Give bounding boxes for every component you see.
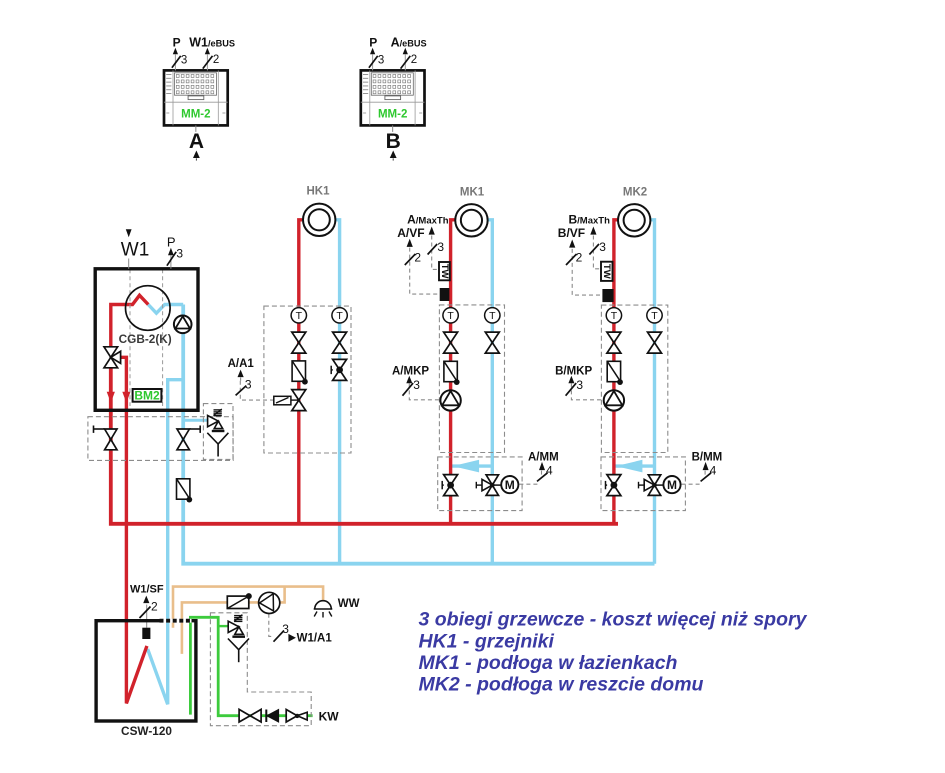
valve MK2 return	[648, 332, 662, 353]
legend line 4	[419, 674, 704, 696]
svg-text:A/VF: A/VF	[397, 226, 424, 240]
wire WW hot water orange	[173, 587, 323, 628]
svg-text:3: 3	[245, 378, 252, 392]
label KW	[319, 710, 340, 724]
svg-text:MM-2: MM-2	[181, 109, 210, 121]
svg-text:M: M	[505, 478, 515, 492]
wire MK1 red supply	[451, 220, 456, 524]
svg-text:TW: TW	[601, 264, 612, 279]
dashed line A/MM to mixer motor	[519, 471, 541, 485]
svg-text:T: T	[489, 310, 496, 322]
label 3 at A/A1	[236, 378, 252, 396]
svg-text:A: A	[189, 130, 204, 153]
boiler pump	[174, 316, 192, 334]
svg-text:KW: KW	[319, 710, 340, 724]
svg-text:CGB-2(K): CGB-2(K)	[119, 332, 172, 346]
dashed box boiler safety group	[203, 404, 233, 460]
label 3 at B/MaxTh	[589, 240, 606, 255]
balancing valve MK2	[606, 475, 621, 496]
svg-text:B/MM: B/MM	[692, 452, 723, 464]
dashed line W1/A1 from DHW pump	[269, 614, 273, 637]
legend line 2	[419, 631, 555, 653]
tap symbol WW	[314, 601, 333, 618]
tank top border pipe crossings	[160, 619, 192, 623]
sensor VF MK2	[602, 289, 613, 302]
wire KW cold water green	[190, 617, 312, 715]
wire MK1 mixing bypass	[451, 460, 493, 473]
label MK2	[623, 186, 647, 198]
svg-text:W1/A1: W1/A1	[297, 633, 333, 645]
motor M MK1	[501, 476, 518, 493]
thermometer T MK1 return	[485, 308, 500, 323]
dashed box MK2 mixing group	[601, 457, 685, 511]
pump MK1	[440, 390, 460, 410]
thermostat TW MK2	[601, 262, 613, 281]
label 3 at B/MKP	[566, 378, 584, 396]
svg-text:2: 2	[213, 54, 219, 66]
mixer 3-way MK1	[476, 475, 500, 496]
label HK1	[306, 185, 330, 197]
svg-text:A/A1: A/A1	[228, 358, 255, 370]
svg-text:T: T	[447, 310, 454, 322]
valve 3-way boiler	[104, 347, 121, 368]
svg-text:T: T	[651, 310, 658, 322]
svg-text:3: 3	[437, 240, 444, 254]
dashed line B/MM to mixer motor	[682, 471, 706, 485]
svg-text:B/MKP: B/MKP	[555, 366, 592, 378]
sensor VF MK1	[440, 288, 450, 301]
label P at boiler	[167, 235, 176, 269]
legend line 1	[419, 609, 808, 631]
label 3 module B	[369, 54, 384, 67]
balancing valve MK1	[442, 475, 457, 496]
balancing valve HK1 return	[331, 359, 346, 380]
label A/MaxTh	[407, 213, 449, 235]
thermostat TW MK1	[439, 262, 450, 280]
svg-text:P: P	[369, 35, 377, 49]
dashed line A/MaxTh to TW	[432, 236, 439, 270]
label 3 at W1/A1	[274, 622, 290, 642]
zone valve HK1	[274, 390, 306, 411]
controller MM-2 module A	[164, 48, 228, 161]
wire HK1 blue return	[336, 220, 340, 564]
dashed box DHW group	[210, 613, 311, 726]
label 3 at A/MKP	[403, 378, 421, 396]
wire red supply main	[111, 368, 618, 524]
valve MK1 supply	[444, 332, 458, 353]
label A/VF	[397, 226, 424, 247]
pump head MK1	[455, 204, 487, 236]
label W1 at boiler	[121, 229, 150, 269]
svg-text:MK1: MK1	[460, 186, 485, 198]
wire MK2 red supply	[614, 220, 619, 524]
label 3 module A	[172, 54, 187, 67]
label B/MM	[692, 452, 723, 470]
svg-text:TW: TW	[439, 264, 450, 279]
check valve blue riser	[177, 479, 193, 503]
dashed box MK2 circuit	[601, 305, 667, 452]
valve HK1 supply	[292, 332, 306, 353]
svg-text:A/MKP: A/MKP	[392, 366, 429, 378]
dashed box MK1 circuit	[439, 305, 504, 453]
svg-text:B: B	[386, 130, 401, 153]
label A/MKP	[392, 366, 429, 384]
svg-text:W1/SF: W1/SF	[130, 584, 164, 596]
legend line 3	[419, 652, 678, 674]
svg-text:2: 2	[414, 251, 421, 265]
motor valve DHW	[227, 593, 252, 608]
svg-text:3: 3	[599, 240, 606, 254]
label 2 at B/VF	[566, 251, 583, 266]
label A/A1	[228, 358, 255, 381]
label CSW-120	[121, 724, 172, 738]
svg-text:4: 4	[546, 463, 553, 477]
motor M MK2	[663, 476, 680, 493]
wire MK1 blue return	[488, 220, 493, 564]
wire green stub to DHW safety valve	[218, 625, 228, 627]
svg-text:HK1: HK1	[306, 185, 330, 197]
check valve KW	[266, 710, 278, 723]
svg-text:3: 3	[576, 378, 583, 392]
valve shutoff red riser	[94, 426, 118, 450]
label 4 at A/MM	[537, 463, 553, 481]
wire boiler-to-tank blue line	[148, 380, 184, 705]
dashed box MK1 mixing group	[438, 457, 522, 511]
module BM2	[133, 389, 162, 403]
svg-text:3: 3	[378, 54, 384, 66]
valve KW shutoff 2	[286, 710, 307, 723]
label B/MaxTh	[569, 213, 611, 235]
svg-text:3: 3	[176, 246, 183, 260]
wire boiler blue return riser to main	[183, 305, 654, 564]
wire red boiler-to-tank supply	[121, 357, 147, 703]
svg-text:2: 2	[151, 600, 158, 614]
wire boiler blue heat-exchanger outlet	[148, 305, 183, 314]
wire WW circulation orange	[182, 587, 285, 654]
label 2 at A/VF	[405, 251, 422, 266]
dashed line A/MKP to pump	[409, 383, 439, 399]
svg-text:T: T	[336, 310, 343, 322]
tank CSW-120 housing	[96, 621, 196, 721]
svg-text:2: 2	[576, 251, 583, 265]
valve shutoff blue riser	[177, 426, 200, 450]
svg-text:W1: W1	[121, 239, 150, 260]
svg-text:WW: WW	[338, 598, 360, 610]
pump MK2	[604, 390, 624, 410]
label 3 at A/MaxTh	[428, 240, 445, 255]
valve HK1 return	[333, 332, 347, 353]
svg-text:B/MaxTh: B/MaxTh	[569, 213, 611, 227]
thermometer T MK1 supply	[443, 308, 458, 323]
dashed line A/VF to sensor	[410, 248, 440, 295]
thermometer T HK1 return	[332, 308, 347, 323]
wire MK2 blue return	[630, 220, 655, 564]
label A/MM	[528, 452, 559, 470]
label 4 at B/MM	[701, 463, 717, 481]
svg-text:MK2: MK2	[623, 186, 647, 198]
svg-text:T: T	[296, 310, 303, 322]
dashed line W1/SF sensor drop	[146, 605, 148, 628]
svg-text:MK2 - podłoga w reszcie domu: MK2 - podłoga w reszcie domu	[419, 674, 704, 696]
dashed line A/A1 to HK1 zone valve	[240, 381, 273, 400]
svg-text:A/MM: A/MM	[528, 452, 559, 464]
svg-text:3 obiegi grzewcze - koszt więc: 3 obiegi grzewcze - koszt więcej niż spo…	[419, 609, 808, 631]
svg-text:BM2: BM2	[134, 389, 160, 403]
wire boiler red heat-exchanger supply	[111, 295, 148, 347]
boiler CGB-2(K) housing	[95, 269, 198, 411]
check valve HK1	[292, 361, 308, 385]
label A/eBUS module B	[391, 35, 427, 49]
label B/VF	[558, 226, 585, 248]
safety valve DHW	[228, 615, 249, 663]
thermometer T MK2 supply	[606, 308, 621, 323]
svg-text:MK1 - podłoga w łazienkach: MK1 - podłoga w łazienkach	[419, 652, 678, 674]
pump head HK1	[303, 204, 335, 236]
label P module B	[369, 35, 377, 49]
safety valve boiler	[207, 409, 228, 457]
svg-text:B/VF: B/VF	[558, 226, 585, 240]
svg-text:3: 3	[413, 378, 420, 392]
svg-text:4: 4	[710, 463, 717, 477]
dashed line P inside boiler	[162, 269, 164, 406]
label 2 at W1/SF	[140, 600, 159, 619]
svg-text:W1/eBUS: W1/eBUS	[189, 35, 235, 49]
label W1/eBUS module A	[189, 35, 235, 49]
wire boiler safety-valve blue stub	[183, 419, 207, 422]
svg-text:M: M	[667, 478, 677, 492]
label CGB-2(K)	[119, 332, 172, 346]
label 2 module A	[203, 54, 220, 69]
label MK1	[460, 186, 485, 198]
label W1/SF	[130, 584, 164, 604]
label WW	[338, 598, 360, 610]
arrow red flow right	[122, 392, 130, 403]
dashed box boiler valve group	[88, 417, 233, 461]
sensor W1/SF	[142, 628, 150, 639]
check valve MK1	[444, 361, 460, 385]
mixer 3-way MK2	[639, 475, 663, 496]
svg-text:3: 3	[181, 54, 187, 66]
svg-text:2: 2	[411, 54, 417, 66]
thermometer T HK1 supply	[291, 308, 306, 323]
pump head MK2	[618, 204, 650, 236]
pump DHW circulation	[259, 592, 280, 613]
svg-text:CSW-120: CSW-120	[121, 724, 172, 738]
thermometer T MK2 return	[647, 308, 662, 323]
label P module A	[173, 35, 181, 49]
dashed line W1 inside boiler	[129, 269, 131, 406]
svg-text:A/eBUS: A/eBUS	[391, 35, 427, 49]
controller MM-2 module B	[361, 48, 425, 161]
svg-text:P: P	[173, 35, 181, 49]
dashed box HK1 circuit	[264, 306, 351, 453]
dashed line B/MKP to pump	[571, 383, 603, 399]
svg-text:MM-2: MM-2	[378, 109, 407, 121]
valve KW shutoff 1	[239, 709, 261, 722]
wire MK2 mixing bypass	[614, 460, 655, 473]
label W1/A1	[288, 633, 332, 645]
svg-text:A/MaxTh: A/MaxTh	[407, 213, 449, 227]
check valve MK2	[607, 361, 623, 385]
svg-text:3: 3	[282, 622, 289, 636]
svg-text:P: P	[167, 235, 176, 250]
valve MK1 return	[485, 332, 499, 353]
svg-text:HK1 - grzejniki: HK1 - grzejniki	[419, 631, 555, 653]
boiler heat exchanger circle	[126, 286, 171, 331]
arrow red flow left	[107, 392, 115, 403]
valve MK2 supply	[607, 332, 621, 353]
label 2 module B	[401, 54, 418, 69]
dashed line B/VF to sensor	[572, 249, 602, 295]
label B/MKP	[555, 366, 592, 384]
dashed line B/MaxTh to TW	[593, 236, 600, 269]
svg-text:T: T	[611, 310, 618, 322]
wire HK1 red supply	[299, 220, 302, 524]
label 3 at boiler P	[167, 246, 184, 265]
